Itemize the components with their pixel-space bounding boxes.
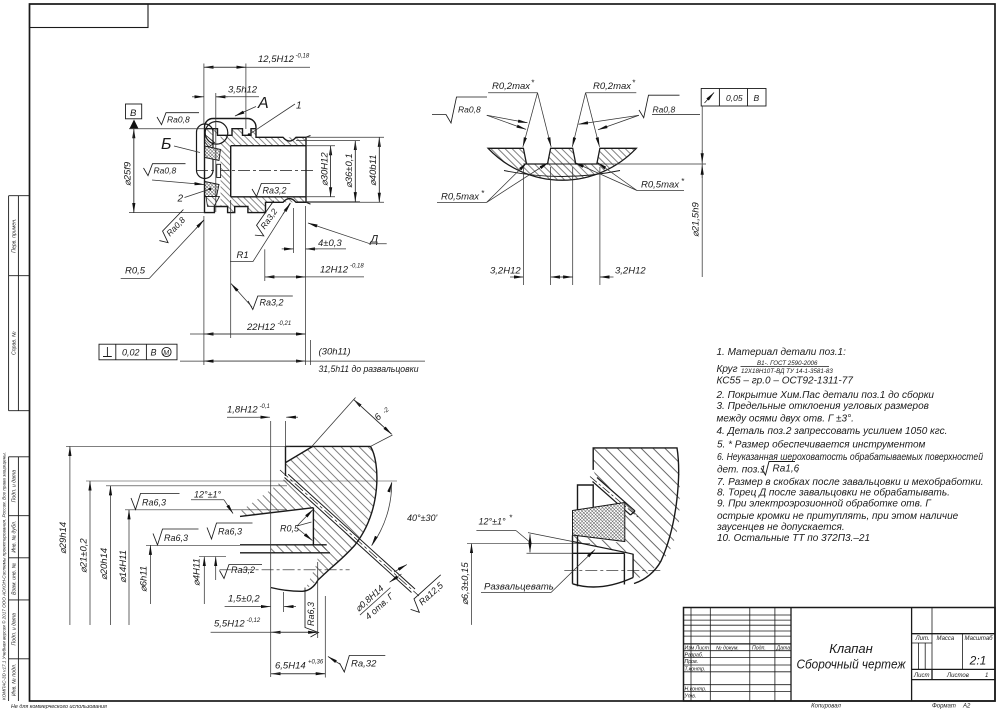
svg-text:1: 1 <box>296 101 302 112</box>
seal trapezoid <box>573 503 625 542</box>
svg-text:5,5H12: 5,5H12 <box>214 619 245 630</box>
svg-text:⌀25f9: ⌀25f9 <box>123 161 134 186</box>
boat-shaped section with hatch <box>488 148 636 180</box>
bore <box>231 146 306 197</box>
svg-text:А2: А2 <box>962 704 971 709</box>
left margin cell grid upper <box>9 196 30 701</box>
outline <box>573 448 679 587</box>
svg-text:Ra6,3: Ra6,3 <box>306 602 316 626</box>
svg-text:⌀4H11: ⌀4H11 <box>192 558 203 586</box>
svg-text:2. Покрытие Хим.Пас детали поз: 2. Покрытие Хим.Пас детали поз.1 до сбор… <box>716 389 935 401</box>
Ra,32 <box>340 656 386 673</box>
svg-text:12°±1°: 12°±1° <box>479 517 507 527</box>
svg-text:1,5±0,2: 1,5±0,2 <box>228 594 260 605</box>
svg-text:между осями двух отв. Г ±3°.: между осями двух отв. Г ±3°. <box>717 414 854 425</box>
svg-text:R0,2max: R0,2max <box>492 81 531 92</box>
svg-text:Взам. инв. №: Взам. инв. № <box>12 562 18 594</box>
dim 6,5H14 <box>271 596 325 678</box>
part 1 outline: body right section <box>205 129 307 213</box>
svg-text:В1-. ГОСТ 2590-2006: В1-. ГОСТ 2590-2006 <box>757 360 818 367</box>
dia0,8H14 4 otv <box>353 579 399 623</box>
svg-text:-0,21: -0,21 <box>278 321 292 327</box>
svg-text:R0,5max: R0,5max <box>441 192 480 203</box>
hatch body <box>593 448 680 523</box>
centerline <box>196 170 316 172</box>
Ra6,3 no3 <box>207 523 253 539</box>
svg-text:⌀21,5h9: ⌀21,5h9 <box>691 202 702 237</box>
seal part 2 <box>197 124 214 179</box>
svg-text:31,5h11 до развальцовки: 31,5h11 до развальцовки <box>319 364 420 375</box>
svg-text:Ra,32: Ra,32 <box>351 659 377 670</box>
centerline <box>220 569 350 571</box>
svg-text:⌀30H12: ⌀30H12 <box>320 152 331 186</box>
svg-text:Инв. № подл.: Инв. № подл. <box>12 664 18 696</box>
svg-text:Подп. и дата: Подп. и дата <box>12 613 18 646</box>
svg-text:7. Размер в скобках после зава: 7. Размер в скобках после завальцовки и … <box>717 476 984 488</box>
Ra0,8 top <box>157 113 199 125</box>
40 deg arc <box>372 482 392 546</box>
svg-text:⌀6,3±0,15: ⌀6,3±0,15 <box>460 562 471 605</box>
svg-text:Копировал: Копировал <box>811 704 841 709</box>
right diameter dims <box>296 137 384 202</box>
svg-text:4. Деталь поз.2 запрессовать у: 4. Деталь поз.2 запрессовать усилием 105… <box>717 426 948 437</box>
svg-text:9. При электроэрозионной обраб: 9. При электроэрозионной обработке отв. … <box>717 498 932 510</box>
dim 6 -2 slanted <box>312 398 393 447</box>
svg-text:Ra0,8: Ra0,8 <box>154 166 177 176</box>
Ra6,3 no2 <box>153 529 199 545</box>
dia 21,5h9 <box>701 107 703 278</box>
dia 6,3±0,15 <box>467 544 590 625</box>
Ra12,5 <box>407 575 450 615</box>
svg-text:22H12: 22H12 <box>246 322 276 333</box>
svg-text:1,8H12: 1,8H12 <box>227 405 258 416</box>
svg-text:R0,5: R0,5 <box>280 524 300 534</box>
Ra0,8 mid <box>144 164 186 176</box>
slot 40 deg <box>285 474 416 592</box>
svg-text:8. Торец Д после завальцовки н: 8. Торец Д после завальцовки не обрабаты… <box>717 487 950 499</box>
svg-text:3,2H12: 3,2H12 <box>490 266 521 277</box>
svg-text:Лит.: Лит. <box>915 636 930 642</box>
svg-text:-0,18: -0,18 <box>296 54 310 60</box>
svg-text:2:1: 2:1 <box>969 654 987 668</box>
Ra0,8 left <box>432 97 487 123</box>
svg-text:Изм Лист: Изм Лист <box>685 645 710 651</box>
svg-text:Лист: Лист <box>913 673 929 679</box>
svg-text:⌀6h11: ⌀6h11 <box>139 566 150 592</box>
svg-text:12°±1°: 12°±1° <box>194 490 222 500</box>
svg-text:дет. поз.1: дет. поз.1 <box>717 464 766 475</box>
svg-text:Подп. и дата: Подп. и дата <box>12 470 18 503</box>
dim (30h11) / 31,5h11 <box>180 206 425 365</box>
svg-text:КОМПАС-3D v17.1 Учебная версия: КОМПАС-3D v17.1 Учебная версия © 2017 ОО… <box>1 452 7 700</box>
svg-text:1. Материал детали поз.1:: 1. Материал детали поз.1: <box>717 347 847 358</box>
svg-text:0,05: 0,05 <box>726 93 743 103</box>
svg-text:Н.контр.: Н.контр. <box>685 686 707 692</box>
svg-text:⌀14H11: ⌀14H11 <box>118 550 129 583</box>
svg-text:Дата: Дата <box>776 645 791 651</box>
dimension 3,5h12 <box>192 93 259 212</box>
3,2H12 dims <box>510 167 614 285</box>
svg-text:Ra6,3: Ra6,3 <box>218 527 242 537</box>
runout tolerance frame <box>701 89 766 107</box>
svg-text:5. * Размер обеспечивается инс: 5. * Размер обеспечивается инструментом <box>717 439 926 451</box>
dim 5,5H12 <box>211 562 318 638</box>
svg-text:R0,5max: R0,5max <box>641 180 680 191</box>
part outline <box>240 446 377 591</box>
svg-text:2: 2 <box>177 194 184 205</box>
svg-text:R0,5: R0,5 <box>125 266 146 277</box>
svg-text:+0,36: +0,36 <box>308 660 324 666</box>
centerline <box>564 569 660 571</box>
svg-text:-0,18: -0,18 <box>350 264 364 270</box>
svg-text:3,2H12: 3,2H12 <box>615 266 646 277</box>
svg-text:6,5H14: 6,5H14 <box>275 661 306 672</box>
svg-text:-0,1: -0,1 <box>260 404 270 410</box>
svg-text:40°±30': 40°±30' <box>407 513 438 523</box>
part 1 outline: cap <box>205 119 311 213</box>
svg-text:Не для коммерческого использов: Не для коммерческого использования <box>11 704 107 709</box>
svg-text:Масса: Масса <box>937 636 955 642</box>
svg-text:12H12: 12H12 <box>320 265 349 276</box>
dim 4±0,3 <box>282 208 346 253</box>
Ra3,2 horizontal with arrow <box>248 296 293 310</box>
flare lip right end <box>306 136 311 205</box>
svg-text:1: 1 <box>985 673 988 679</box>
svg-text:-0,12: -0,12 <box>247 618 261 624</box>
dim 12H12 <box>265 249 364 281</box>
svg-text:Б: Б <box>161 136 171 153</box>
datum flag B <box>126 104 142 119</box>
hatch regions <box>286 446 378 539</box>
svg-text:(30h11): (30h11) <box>319 347 351 358</box>
tolerance frame 0,02 B(M) <box>99 344 177 360</box>
svg-text:В: В <box>754 93 760 103</box>
svg-text:Клапан: Клапан <box>829 641 873 656</box>
dim 1,5±0,2 <box>225 592 296 612</box>
svg-text:Пров.: Пров. <box>685 659 699 665</box>
svg-text:Ra0,8: Ra0,8 <box>458 105 481 115</box>
flared tube stick <box>593 478 636 516</box>
svg-text:Ra3,2: Ra3,2 <box>260 298 284 308</box>
header + staff rows <box>684 643 792 645</box>
svg-text:Справ. №: Справ. № <box>12 331 18 355</box>
title block texts <box>685 645 791 699</box>
svg-text:Листов: Листов <box>946 673 969 679</box>
svg-text:Т.контр.: Т.контр. <box>685 667 706 673</box>
Ra6,3 no1 <box>131 494 180 510</box>
svg-text:Сборочный чертеж: Сборочный чертеж <box>797 657 907 672</box>
svg-text:Разраб.: Разраб. <box>685 652 704 658</box>
svg-text:острые кромки не притуплять, п: острые кромки не притуплять, при этом на… <box>717 511 959 522</box>
svg-text:3,5h12: 3,5h12 <box>228 85 258 96</box>
svg-text:В: В <box>151 348 157 358</box>
placeholder groups <box>1 196 108 709</box>
svg-text:М: М <box>163 350 169 357</box>
svg-text:⌀36±0,1: ⌀36±0,1 <box>344 153 355 188</box>
svg-text:Ra0,8: Ra0,8 <box>653 105 676 115</box>
dim 22H12 <box>190 200 306 365</box>
svg-text:⌀20h14: ⌀20h14 <box>99 548 110 580</box>
upper thin rows (left part) <box>684 615 792 636</box>
svg-text:В: В <box>130 108 137 119</box>
dia 25f9 <box>129 129 205 213</box>
dim 1,8H12 <box>227 417 298 677</box>
svg-text:№ докум.: № докум. <box>716 645 739 651</box>
svg-text:⌀21±0,2: ⌀21±0,2 <box>79 538 90 573</box>
svg-text:КС55 – гр.0 – ОСТ92-1311-77: КС55 – гр.0 – ОСТ92-1311-77 <box>717 376 854 387</box>
svg-text:12Х18Н10Т-ВД ТУ 14-1-3581-83: 12Х18Н10Т-ВД ТУ 14-1-3581-83 <box>741 368 833 375</box>
svg-text:Формат: Формат <box>932 704 956 709</box>
Ra6,3 rotated at slot wall <box>305 588 319 638</box>
svg-text:Ra3,2: Ra3,2 <box>231 565 255 575</box>
svg-text:Ra3,2: Ra3,2 <box>263 186 287 196</box>
svg-text:Развальцевать: Развальцевать <box>484 582 554 593</box>
hatch fills part 1 body <box>221 129 306 146</box>
svg-text:⌀40b11: ⌀40b11 <box>368 155 379 186</box>
main verticals <box>791 608 912 702</box>
svg-text:3. Предельные отклоения угловы: 3. Предельные отклоения угловых размеров <box>717 401 929 412</box>
svg-text:0,02: 0,02 <box>122 348 140 358</box>
svg-text:Утв.: Утв. <box>685 693 697 699</box>
inner bottom arc <box>504 171 620 177</box>
svg-text:6. Неуказанная шероховатость о: 6. Неуказанная шероховатость обрабатывае… <box>717 451 983 463</box>
dimension 12,5H12 <box>204 64 310 130</box>
svg-text:Перв. примен.: Перв. примен. <box>12 218 18 252</box>
svg-text:.: . <box>796 464 799 475</box>
svg-text:R1: R1 <box>237 250 249 261</box>
svg-text:R0,2max: R0,2max <box>593 81 632 92</box>
slot width arrows <box>394 565 407 572</box>
svg-text:Инв. № дубл.: Инв. № дубл. <box>12 521 18 553</box>
svg-text:12,5H12: 12,5H12 <box>258 54 295 65</box>
svg-text:заусенцев не допускается.: заусенцев не допускается. <box>716 522 845 533</box>
svg-text:Круг: Круг <box>717 364 738 375</box>
svg-text:Масштаб: Масштаб <box>965 636 994 642</box>
Ra3,2 inside bore <box>252 184 290 197</box>
svg-text:⌀29h14: ⌀29h14 <box>58 522 69 554</box>
svg-text:Подп.: Подп. <box>752 645 766 651</box>
svg-text:А: А <box>257 95 269 112</box>
Ra3,2 near 4H11 <box>220 565 263 579</box>
svg-text:Ra0,8: Ra0,8 <box>167 115 190 125</box>
svg-text:Ra6,3: Ra6,3 <box>164 533 188 543</box>
right section <box>912 634 995 680</box>
title block grid <box>684 608 996 702</box>
svg-text:10. Остальные ТТ по 372П3.–21: 10. Остальные ТТ по 372П3.–21 <box>717 533 870 544</box>
Ra0,8 right <box>639 95 700 118</box>
svg-text:Ra6,3: Ra6,3 <box>142 498 166 508</box>
rotated cell labels <box>12 218 18 696</box>
svg-text:4±0,3: 4±0,3 <box>318 238 342 249</box>
groove bottom line <box>523 163 600 165</box>
left dia dims <box>66 446 397 625</box>
